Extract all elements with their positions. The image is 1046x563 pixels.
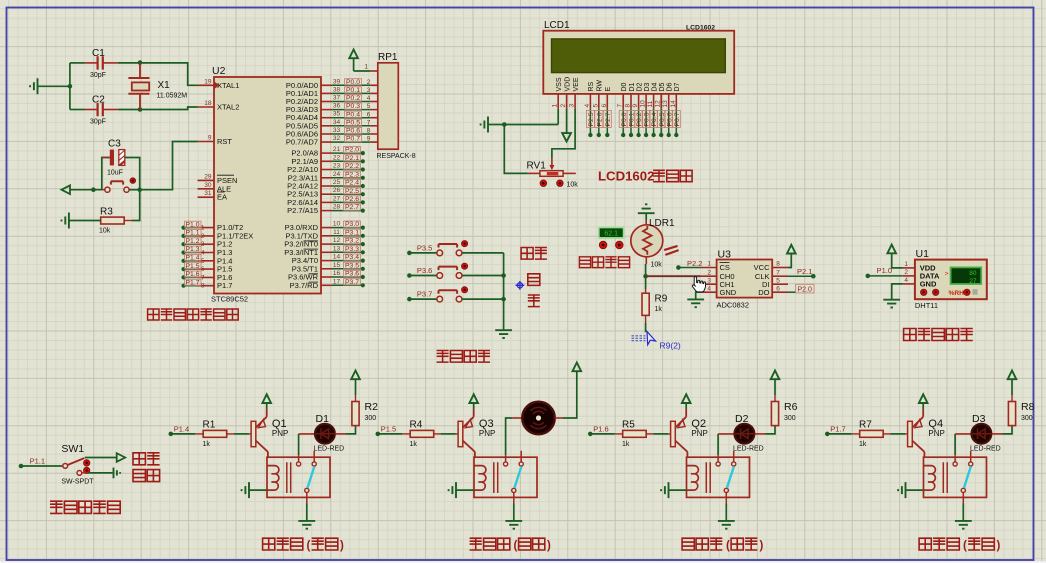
wire P2.7 bbox=[332, 210, 363, 212]
U2 pin 2 P1.1 bbox=[198, 235, 215, 237]
wire relay common to ground bbox=[513, 493, 515, 504]
svg-text:10: 10 bbox=[640, 100, 647, 108]
wire P2.4 bbox=[332, 185, 363, 187]
relay body (Q3) bbox=[474, 457, 537, 497]
svg-text:5: 5 bbox=[367, 103, 371, 110]
svg-text:D3: D3 bbox=[972, 413, 986, 425]
relay switch blade (cyan) bbox=[727, 466, 734, 488]
net label P0.2 bbox=[345, 95, 362, 101]
IC U2 STC89C52 body bbox=[214, 77, 321, 294]
net label P0.3 (LCD) bbox=[645, 109, 647, 135]
svg-text:12: 12 bbox=[333, 237, 341, 244]
RP1 pin 9 bbox=[370, 141, 377, 143]
ground (relay common) bbox=[298, 521, 315, 529]
ground (SW1, rotated) bbox=[114, 468, 121, 479]
net label P2.6 (LCD) bbox=[598, 109, 600, 135]
net label P2.2 bbox=[676, 265, 681, 270]
net label P2.6 bbox=[344, 196, 361, 202]
svg-text:P3.5: P3.5 bbox=[345, 262, 359, 269]
ground (left of LCD) bbox=[481, 117, 488, 133]
svg-text:32: 32 bbox=[333, 135, 341, 142]
svg-text:RS: RS bbox=[588, 81, 595, 91]
push button P3.6 bbox=[437, 273, 443, 279]
wire P0.2 to RP1 bbox=[332, 101, 370, 103]
net label P1.5 bbox=[376, 432, 381, 437]
U2 pin 5 P1.4 bbox=[198, 260, 215, 262]
svg-text:300: 300 bbox=[784, 415, 796, 422]
net label P0.1 bbox=[345, 87, 362, 93]
svg-text:2: 2 bbox=[367, 79, 371, 86]
U2 pin 25 P2.4/A12 bbox=[321, 185, 332, 187]
svg-text:3: 3 bbox=[569, 104, 576, 108]
label: temp-humidity module (Chinese) bbox=[904, 329, 973, 341]
svg-text:4: 4 bbox=[584, 104, 591, 108]
wire motor to power bbox=[555, 417, 563, 419]
svg-text:25: 25 bbox=[333, 179, 341, 186]
svg-text:13: 13 bbox=[333, 245, 341, 252]
power arrow (motor) bbox=[573, 363, 582, 372]
power arrow (emitter Q4) bbox=[922, 403, 924, 409]
power arrow (U1 VDD) bbox=[887, 245, 896, 254]
wire P2.5 bbox=[332, 193, 363, 195]
relay core bbox=[494, 462, 498, 493]
button P3.6 red actuator bbox=[462, 263, 468, 269]
relay coil bbox=[687, 466, 699, 491]
svg-text:R9: R9 bbox=[655, 294, 668, 305]
net label P1.0 (left) bbox=[181, 226, 185, 230]
svg-text:15: 15 bbox=[333, 262, 341, 269]
U2 pin 34 P0.5/AD5 bbox=[321, 125, 332, 127]
svg-text:10k: 10k bbox=[651, 262, 663, 269]
wire P2.2 bbox=[332, 169, 363, 171]
ground (left of R3) bbox=[62, 213, 69, 229]
U1 pin 1 VDD bbox=[903, 267, 915, 269]
LDR adjust red dots bbox=[599, 241, 607, 249]
U2 pin 17 P3.7/RD bbox=[321, 284, 332, 286]
label: relay function (Chinese) bbox=[263, 538, 303, 550]
svg-text:C1: C1 bbox=[92, 48, 105, 59]
power arrow (R6) bbox=[774, 395, 776, 402]
svg-text:P3.2: P3.2 bbox=[345, 238, 359, 245]
svg-text:P3.6: P3.6 bbox=[345, 271, 359, 278]
ground above LDR1 (flipped) bbox=[638, 204, 655, 213]
U2 pin 19 XTAL1 bbox=[198, 84, 215, 86]
transistor Q4 PNP bbox=[908, 421, 913, 446]
svg-text:PNP: PNP bbox=[479, 429, 495, 438]
wire arrow to reset button bbox=[70, 189, 102, 191]
wire X1 top to chip corner bbox=[140, 63, 198, 85]
net label P3.5 bbox=[344, 262, 361, 268]
wire SW1 throw down to ground bbox=[82, 472, 88, 474]
net label P2.2 bbox=[344, 163, 361, 169]
U1 pin 2 DATA bbox=[903, 275, 915, 277]
svg-text:1: 1 bbox=[707, 261, 711, 268]
svg-text:4: 4 bbox=[904, 277, 908, 284]
svg-text:(: ( bbox=[514, 540, 518, 552]
U1 pin 4 GND bbox=[903, 283, 915, 285]
net label P3.6 bbox=[344, 270, 361, 276]
svg-text:2: 2 bbox=[904, 269, 908, 276]
DHT11 green display bbox=[951, 267, 982, 284]
ground (U3) bbox=[696, 292, 701, 299]
net label P1.6 (left) bbox=[181, 275, 185, 279]
IC U1 DHT11 body bbox=[915, 260, 987, 300]
U2 pin 28 P2.7/A15 bbox=[321, 210, 332, 212]
svg-text:34: 34 bbox=[333, 119, 341, 126]
label: close (Chinese) bbox=[133, 470, 160, 482]
blue origin marker bbox=[516, 281, 525, 290]
LED D3 LED-RED bbox=[955, 433, 972, 435]
svg-text:LED-RED: LED-RED bbox=[733, 445, 764, 452]
net label P2.0 bbox=[788, 291, 796, 293]
wire P3.2 bbox=[332, 243, 363, 245]
svg-text:1k: 1k bbox=[655, 306, 663, 313]
svg-text:24: 24 bbox=[333, 171, 341, 178]
svg-text:Q4: Q4 bbox=[928, 418, 943, 430]
svg-text:): ) bbox=[340, 540, 344, 552]
svg-text:P1.5: P1.5 bbox=[186, 263, 200, 270]
svg-text:P2.2: P2.2 bbox=[345, 163, 359, 170]
svg-text:D0: D0 bbox=[621, 82, 628, 91]
label: relay function (Chinese) bbox=[682, 538, 722, 550]
net label P1.1 (left) bbox=[181, 234, 185, 238]
wire P0.5 to RP1 bbox=[332, 125, 370, 127]
U2 pin 31 EA bbox=[198, 196, 215, 198]
net label P1.6 bbox=[588, 432, 593, 437]
svg-text:VDD: VDD bbox=[564, 77, 571, 92]
svg-text:7: 7 bbox=[776, 269, 780, 276]
blue cursor arrow R9(2) bbox=[647, 332, 656, 345]
net label P1.7 bbox=[825, 432, 830, 437]
svg-text:LED-RED: LED-RED bbox=[970, 445, 1001, 452]
svg-text:R7: R7 bbox=[859, 419, 872, 430]
svg-text:4: 4 bbox=[707, 285, 711, 292]
svg-text:10k: 10k bbox=[99, 228, 111, 235]
net label P3.4 bbox=[344, 254, 361, 260]
net label P0.1 (LCD) bbox=[630, 109, 632, 135]
svg-text:P0.7: P0.7 bbox=[674, 112, 681, 126]
svg-text:P3.6: P3.6 bbox=[417, 266, 432, 275]
LED D2 LED-RED bbox=[718, 433, 735, 435]
svg-text:10k: 10k bbox=[567, 182, 579, 189]
RP1 pin 2 bbox=[370, 84, 377, 86]
reset button red actuator bbox=[130, 178, 136, 184]
net label P1.2 (left) bbox=[181, 242, 185, 246]
svg-text:18: 18 bbox=[204, 100, 212, 107]
U3 pin 6 DO bbox=[772, 291, 788, 293]
svg-text:P1.5: P1.5 bbox=[381, 424, 396, 433]
label: plus (Chinese) bbox=[528, 274, 540, 286]
U2 pin 11 P3.1/TXD bbox=[321, 235, 332, 237]
svg-text:R3: R3 bbox=[100, 207, 113, 218]
wire ground to LDR1 bbox=[645, 213, 647, 220]
svg-text:39: 39 bbox=[333, 78, 341, 85]
wire P2.1 bbox=[332, 160, 363, 162]
net label P3.7 bbox=[344, 279, 361, 285]
svg-text:ADC0832: ADC0832 bbox=[717, 301, 750, 310]
ground (buttons) bbox=[495, 330, 512, 338]
svg-text:2: 2 bbox=[707, 269, 711, 276]
svg-text:(: ( bbox=[726, 540, 730, 552]
U2 pin 16 P3.6/WR bbox=[321, 276, 332, 278]
svg-text:Q3: Q3 bbox=[479, 418, 494, 430]
svg-text:P0.5: P0.5 bbox=[346, 119, 360, 126]
button P3.5 red actuator bbox=[462, 241, 468, 247]
wire D1 to R2 bbox=[335, 433, 346, 435]
sounder/motor bbox=[512, 417, 522, 419]
svg-text:6: 6 bbox=[776, 285, 780, 292]
net label P2.1 bbox=[788, 275, 813, 277]
ground (left of C1/C2) bbox=[30, 78, 37, 94]
svg-text:5: 5 bbox=[201, 258, 205, 265]
relay contacts bbox=[299, 451, 315, 462]
transistor Q3 PNP bbox=[458, 421, 463, 446]
U3 pin 5 DI bbox=[772, 283, 788, 285]
svg-text:9: 9 bbox=[632, 104, 639, 108]
svg-text:P3.5: P3.5 bbox=[417, 244, 432, 253]
wire P3.6 bbox=[332, 276, 363, 278]
svg-text:LCD1: LCD1 bbox=[544, 20, 570, 31]
resistor R6 300 bbox=[774, 425, 776, 427]
net label P3.2 bbox=[344, 238, 361, 244]
svg-text:EA: EA bbox=[217, 193, 227, 202]
svg-text:17: 17 bbox=[333, 278, 341, 285]
wire ground-VSS bbox=[488, 124, 558, 126]
svg-text:29: 29 bbox=[204, 173, 212, 180]
net label P3.0 bbox=[344, 221, 361, 227]
svg-text:4: 4 bbox=[367, 95, 371, 102]
label: relay function (Chinese) bbox=[470, 538, 510, 550]
svg-text:P3.4: P3.4 bbox=[345, 254, 359, 261]
net label P0.6 bbox=[345, 127, 362, 133]
net label P0.7 bbox=[345, 136, 362, 142]
junction C3-left bbox=[91, 187, 96, 192]
wire SW1 throw up to arrow bbox=[85, 457, 117, 459]
net label P1.5 (left) bbox=[181, 267, 185, 271]
U2 pin 12 P3.2/INT0 bbox=[321, 243, 332, 245]
RP1 pin 6 bbox=[370, 117, 377, 119]
resistor R1 1k bbox=[203, 430, 227, 437]
power arrow (U3 VCC) bbox=[788, 254, 791, 268]
svg-text:P1.6: P1.6 bbox=[593, 424, 608, 433]
svg-text:GND: GND bbox=[920, 280, 937, 289]
net label P3.5 (button) bbox=[407, 251, 412, 256]
U2 pin 1 P1.0 bbox=[198, 227, 215, 229]
svg-text:11.0592M: 11.0592M bbox=[157, 93, 188, 100]
wire D3 to R8 bbox=[992, 433, 1003, 435]
svg-text:%RH: %RH bbox=[949, 290, 965, 297]
svg-text:1: 1 bbox=[904, 261, 908, 268]
svg-text:1: 1 bbox=[364, 64, 368, 71]
wire P2.3 bbox=[332, 177, 363, 179]
svg-text:30pF: 30pF bbox=[90, 119, 106, 126]
wire P1.5 to R4 bbox=[378, 433, 402, 435]
ground (relay common) bbox=[955, 521, 972, 529]
wire P0.0 to RP1 bbox=[332, 84, 370, 86]
label: minus (Chinese) bbox=[528, 295, 540, 307]
svg-text:P0.4: P0.4 bbox=[346, 111, 360, 118]
svg-text:P1.0: P1.0 bbox=[877, 266, 892, 275]
wire P3.4 bbox=[332, 260, 363, 262]
wire relay contact to D1 bbox=[298, 434, 300, 455]
svg-text:SW1: SW1 bbox=[61, 443, 84, 455]
svg-text:P1.7: P1.7 bbox=[217, 281, 232, 290]
wire R3 right to junction bbox=[124, 220, 132, 222]
relay body (Q2) bbox=[687, 457, 750, 497]
svg-text:10uF: 10uF bbox=[107, 170, 123, 177]
relay switch blade (cyan) bbox=[514, 466, 521, 488]
svg-text:P0.7: P0.7 bbox=[346, 136, 360, 143]
svg-text:37: 37 bbox=[333, 95, 341, 102]
svg-text:P2.6: P2.6 bbox=[596, 112, 603, 126]
svg-text:22: 22 bbox=[333, 154, 341, 161]
mouse hand cursor bbox=[692, 277, 705, 292]
svg-text:P2.1: P2.1 bbox=[345, 155, 359, 162]
svg-text:P1.0: P1.0 bbox=[186, 221, 200, 228]
svg-text:D2: D2 bbox=[636, 82, 643, 91]
resistor R3 10k bbox=[101, 217, 125, 224]
svg-text:13: 13 bbox=[662, 100, 669, 108]
svg-text:R2: R2 bbox=[365, 401, 379, 413]
wire P3.7 bbox=[332, 284, 363, 286]
svg-text:4: 4 bbox=[201, 250, 205, 257]
svg-text:P2.0: P2.0 bbox=[345, 147, 359, 154]
svg-text:1k: 1k bbox=[203, 441, 211, 448]
svg-text:R1: R1 bbox=[203, 419, 216, 430]
net label P2.5 bbox=[344, 188, 361, 194]
U2 pin 4 P1.3 bbox=[198, 252, 215, 254]
ground (relay coil) bbox=[449, 482, 456, 498]
svg-text:VEE: VEE bbox=[573, 77, 580, 91]
resistor R7 1k bbox=[860, 430, 884, 437]
RP1 pin 7 bbox=[370, 125, 377, 127]
power arrow (emitter Q1) bbox=[266, 403, 268, 409]
U2 pin 13 P3.3/INT1 bbox=[321, 251, 332, 253]
U2 pin 37 P0.2/AD2 bbox=[321, 101, 332, 103]
svg-text:U2: U2 bbox=[212, 65, 226, 77]
svg-text:P1.3: P1.3 bbox=[186, 246, 200, 253]
wire D2 to R6 bbox=[755, 433, 766, 435]
svg-text:27: 27 bbox=[969, 278, 977, 285]
net label P0.2 (LCD) bbox=[638, 109, 640, 135]
svg-text:D5: D5 bbox=[659, 82, 666, 91]
svg-text:8: 8 bbox=[776, 261, 780, 268]
RV1 wiper arrow bbox=[551, 158, 553, 167]
net label P2.5 (LCD) bbox=[589, 109, 591, 135]
label: relay function (Chinese) bbox=[919, 538, 959, 550]
U2 pin 3 P1.2 bbox=[198, 243, 215, 245]
U2 pin 21 P2.0/A8 bbox=[321, 152, 332, 154]
svg-text:P0.0: P0.0 bbox=[346, 79, 360, 86]
wire relay contact to D2 bbox=[717, 434, 719, 455]
push button P3.7 bbox=[437, 296, 443, 302]
power arrow (emitter Q2) bbox=[685, 403, 687, 409]
switch SW1 SW-SPDT bbox=[63, 464, 68, 469]
svg-text:D6: D6 bbox=[667, 82, 674, 91]
U2 pin 24 P2.3/A11 bbox=[321, 177, 332, 179]
net label P2.7 (LCD) bbox=[606, 109, 608, 135]
relay core bbox=[287, 462, 291, 493]
wire P2.0 bbox=[332, 152, 363, 154]
net label P1.1 bbox=[19, 464, 24, 469]
U3 pin 3 CH1 bbox=[701, 283, 717, 285]
net label P0.6 (LCD) bbox=[668, 109, 670, 135]
SW1 red toggle dots bbox=[84, 460, 90, 466]
svg-text:2: 2 bbox=[560, 104, 567, 108]
wire P3.1 bbox=[332, 235, 363, 237]
net label P0.5 bbox=[345, 119, 362, 125]
wire VSS down bbox=[557, 109, 559, 125]
wire R1 to base bbox=[227, 433, 234, 435]
svg-text:P3.3: P3.3 bbox=[345, 246, 359, 253]
wire button P3.7 to bus bbox=[462, 298, 504, 300]
input terminal arrow (reset net) bbox=[62, 185, 71, 194]
svg-text:3: 3 bbox=[367, 87, 371, 94]
svg-text:): ) bbox=[760, 540, 764, 552]
net label P1.4 bbox=[169, 432, 174, 437]
net label P0.7 (LCD) bbox=[675, 109, 677, 135]
svg-text:14: 14 bbox=[333, 254, 341, 261]
RP1 pin 3 bbox=[370, 92, 377, 94]
buttons common bus bbox=[503, 253, 505, 330]
RP1 pin 8 bbox=[370, 133, 377, 135]
svg-text:R8: R8 bbox=[1021, 401, 1035, 413]
wire power to RP1 pin1 bbox=[354, 70, 371, 72]
svg-text:CS: CS bbox=[720, 263, 730, 272]
svg-text:300: 300 bbox=[1021, 415, 1033, 422]
LCD1 LCD1602 module body bbox=[543, 31, 734, 94]
svg-text:RST: RST bbox=[217, 137, 232, 146]
wire C3 right lead bbox=[125, 158, 140, 190]
wire relay common to ground bbox=[725, 493, 727, 504]
relay contacts bbox=[506, 451, 522, 462]
U2 pin 14 P3.4/T0 bbox=[321, 260, 332, 262]
net label P3.7 (button) bbox=[407, 297, 412, 302]
U2 pin 36 P0.3/AD3 bbox=[321, 109, 332, 111]
svg-text:R9(2): R9(2) bbox=[660, 341, 681, 351]
svg-text:P2.7/A15: P2.7/A15 bbox=[287, 206, 318, 215]
wire P0.3 to RP1 bbox=[332, 109, 370, 111]
svg-text:PNP: PNP bbox=[272, 429, 288, 438]
svg-text:1k: 1k bbox=[410, 441, 418, 448]
node X1 top junction bbox=[138, 60, 143, 65]
ground (relay coil) bbox=[242, 482, 249, 498]
svg-text:P1.4: P1.4 bbox=[174, 424, 189, 433]
svg-text:P1.1: P1.1 bbox=[30, 456, 45, 465]
wire P0.7 to RP1 bbox=[332, 141, 370, 143]
svg-text:): ) bbox=[547, 540, 551, 552]
DHT11 red buttons bbox=[921, 289, 927, 295]
relay core bbox=[943, 462, 947, 493]
label: open (Chinese) bbox=[133, 453, 160, 465]
net label P1.3 (left) bbox=[181, 250, 185, 254]
wire top to C1 bbox=[70, 62, 85, 64]
ground (relay coil) bbox=[661, 482, 668, 498]
ground (relay coil) bbox=[898, 482, 905, 498]
svg-text:GND: GND bbox=[720, 288, 737, 297]
svg-text:80: 80 bbox=[969, 270, 977, 277]
wire R7 to base bbox=[883, 433, 890, 435]
junction bus P3.7 bbox=[501, 297, 506, 302]
svg-text:R6: R6 bbox=[784, 401, 798, 413]
power arrow (R2) bbox=[355, 395, 357, 402]
U2 pin 15 P3.5/T1 bbox=[321, 268, 332, 270]
svg-text:U3: U3 bbox=[718, 249, 732, 261]
wire P0.1 to RP1 bbox=[332, 92, 370, 94]
U2 pin 8 P1.7 bbox=[198, 285, 215, 287]
U2 pin 33 P0.6/AD6 bbox=[321, 133, 332, 135]
svg-text:P3.7: P3.7 bbox=[417, 290, 432, 299]
